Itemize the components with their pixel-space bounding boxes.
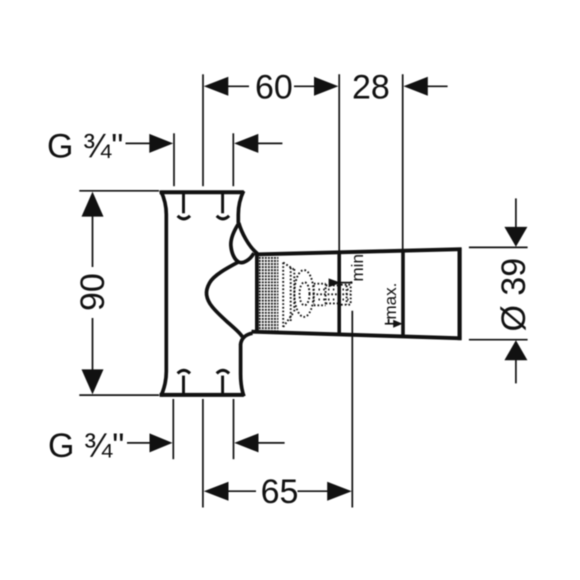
svg-text:90: 90 <box>74 273 112 311</box>
cone vertical dotted 1 <box>282 263 284 328</box>
spindle step1 start dotted <box>313 285 315 304</box>
spindle tip bottom dotted <box>341 304 351 306</box>
arrow G34 bottom left <box>150 433 173 452</box>
arrow G34 bottom right <box>234 433 258 452</box>
svg-text:65: 65 <box>261 473 299 511</box>
thread hook top-left line <box>182 194 185 214</box>
90 dim line upper seg <box>92 215 94 267</box>
arrow 90 down <box>82 369 104 394</box>
svg-text:min: min <box>348 254 367 281</box>
svg-text:Ø 39: Ø 39 <box>495 258 533 332</box>
valve body left edge <box>161 191 166 396</box>
extension line max top <box>402 74 404 249</box>
spindle step1 top dotted <box>314 283 326 285</box>
arrow 90 up <box>82 192 104 217</box>
housing bottom fillet <box>241 333 253 344</box>
spindle ring inner dotted <box>300 282 310 305</box>
spindle stem extra dots <box>319 289 349 291</box>
dia39 ext line bottom <box>469 339 528 341</box>
center line below body <box>202 399 204 508</box>
G34 top ext line right <box>232 133 234 186</box>
spindle tip end dotted <box>346 286 348 305</box>
G34 top leader left <box>126 142 151 144</box>
svg-text:G ¾": G ¾" <box>47 128 123 166</box>
spindle stem mid dotted row <box>317 293 351 295</box>
left boss bulge outline <box>206 262 242 337</box>
90 dim line lower seg <box>92 318 94 371</box>
min pointer tail <box>341 282 352 284</box>
housing bottom edge <box>252 332 462 339</box>
thread hook top-right line <box>221 194 224 214</box>
arrow dim28 <box>404 77 428 96</box>
arrow min pointer <box>329 278 341 287</box>
thread hook top-left arc <box>178 216 190 219</box>
bottom ext line right <box>233 399 235 459</box>
valve body right edge lower <box>241 344 244 396</box>
90 ext line bottom <box>79 394 159 396</box>
dim 60 line right tail <box>294 85 315 87</box>
G34 top leader right <box>258 142 283 144</box>
svg-text:28: 28 <box>352 69 390 107</box>
dim 60 line left tail <box>228 85 250 87</box>
arrow dim60 left <box>204 77 229 96</box>
arrow dim60 right <box>314 77 338 96</box>
extension line min top <box>338 74 340 250</box>
spindle step2 bottom dotted <box>326 302 339 304</box>
max plane line <box>401 251 405 337</box>
cone top dotted <box>283 263 293 270</box>
spindle ring outer dotted <box>294 270 313 317</box>
valve body right edge upper <box>238 191 243 223</box>
G34 top ext line left <box>173 133 175 186</box>
thread hook top-right arc <box>217 216 229 219</box>
thread hook bottom-left arc <box>178 370 190 373</box>
knurled cartridge section <box>259 257 279 331</box>
dia39 dim line lower <box>515 359 517 383</box>
dim 65 line left seg <box>227 490 256 492</box>
G34 bottom leader right <box>258 442 285 444</box>
min pointer dot <box>350 281 353 284</box>
dim 65 line right seg <box>298 490 329 492</box>
svg-text:60: 60 <box>255 69 293 107</box>
extension line center top <box>202 74 204 186</box>
housing top edge <box>255 249 461 254</box>
diagonal edge to housing corner <box>239 223 258 254</box>
arrow dim65 right <box>327 482 352 501</box>
housing right edge <box>458 248 462 341</box>
arrow max pointer <box>393 320 402 328</box>
dia39 ext line top <box>469 246 528 248</box>
bottom ext line left <box>172 399 174 459</box>
thread hook bottom-left line <box>182 376 185 394</box>
teardrop loop <box>231 224 254 263</box>
spindle step1 bottom dotted <box>314 304 326 306</box>
arrow dim65 left <box>204 482 229 501</box>
spindle step1 end dotted <box>325 284 327 306</box>
arrow dia39 up <box>504 340 527 360</box>
valve body top edge <box>160 190 244 194</box>
thread hook bottom-right line <box>221 376 224 394</box>
arrow G34 top left <box>149 134 173 153</box>
cone bottom dotted <box>283 313 293 328</box>
thread hook bottom-right arc <box>217 370 229 373</box>
hidden spindle dotted internals <box>283 263 351 328</box>
G34 bottom leader left <box>127 442 150 444</box>
cone vertical dotted 2 <box>293 269 295 313</box>
arrow dia39 down <box>504 227 527 247</box>
max pointer tick <box>388 319 390 324</box>
dia39 dim line upper <box>515 198 517 228</box>
spindle step2 top dotted <box>326 284 339 286</box>
wall plane line <box>351 311 353 508</box>
arrow G34 top right <box>234 134 258 153</box>
spindle tip top dotted <box>341 284 351 286</box>
90 ext line top <box>79 190 159 192</box>
valve body bottom edge <box>160 393 244 397</box>
dim 28 tail right <box>427 85 448 87</box>
min plane line <box>337 252 341 333</box>
max pointer tail <box>385 323 394 325</box>
svg-text:max.: max. <box>381 283 400 320</box>
housing left edge <box>255 253 259 334</box>
svg-text:G ¾": G ¾" <box>48 427 124 465</box>
